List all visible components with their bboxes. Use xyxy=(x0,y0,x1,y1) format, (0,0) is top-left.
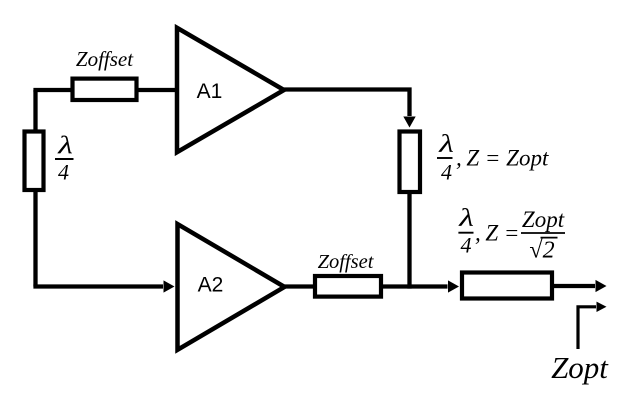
op-amp A1 xyxy=(177,28,284,152)
quarter-wave line λ/4 Z=Zopt (right vertical) xyxy=(400,132,421,193)
svg-text:Zopt: Zopt xyxy=(551,350,609,385)
transmission line Zoffset (bottom) xyxy=(315,276,381,297)
label λ/4 (left) xyxy=(55,132,74,184)
svg-text:Zoffset: Zoffset xyxy=(318,251,375,273)
wire left vertical bottom segment xyxy=(33,190,37,287)
wire from Zoffset box to A1 input xyxy=(138,88,176,92)
svg-text:λ: λ xyxy=(438,131,454,158)
transmission line Zoffset (top) xyxy=(73,79,137,100)
label λ/4, Z = Zopt/√2 xyxy=(458,205,565,264)
svg-text:, Z = Zopt: , Z = Zopt xyxy=(456,146,549,171)
wire right vertical from λ/4 box down to output junction xyxy=(407,192,411,289)
svg-text:λ: λ xyxy=(458,205,474,232)
node Zopt looking-in indicator (bent arrow) xyxy=(578,307,596,349)
label λ/4, Z = Zopt xyxy=(437,131,549,185)
wire output with arrow xyxy=(554,284,595,288)
wire from bottom Zoffset box through junction with arrow into output line xyxy=(383,284,448,288)
wire A2 output to Zoffset box (bottom) xyxy=(285,284,315,288)
svg-text:√2: √2 xyxy=(529,238,554,264)
svg-text:Zopt: Zopt xyxy=(522,207,565,232)
wire bottom-left horizontal into A2 with arrow xyxy=(33,284,163,288)
svg-text:Zoffset: Zoffset xyxy=(76,47,134,71)
wire top-left horizontal from corner to Zoffset box xyxy=(33,88,71,92)
svg-text:4: 4 xyxy=(441,160,452,185)
svg-text:A1: A1 xyxy=(197,80,223,103)
svg-text:λ: λ xyxy=(57,132,73,159)
quarter-wave line λ/4 (left) xyxy=(25,132,44,191)
svg-text:4: 4 xyxy=(58,160,69,185)
svg-text:4: 4 xyxy=(461,233,472,258)
quarter-wave line λ/4 Z=Zopt/√2 (output) xyxy=(462,273,552,299)
op-amp A2 xyxy=(178,224,285,350)
svg-text:, Z =: , Z = xyxy=(475,221,519,246)
wire A1 output to top-right corner, down with arrow into λ/4 box xyxy=(284,90,410,117)
wire input corner: left vertical top segment xyxy=(33,90,37,131)
svg-text:A2: A2 xyxy=(198,274,224,297)
